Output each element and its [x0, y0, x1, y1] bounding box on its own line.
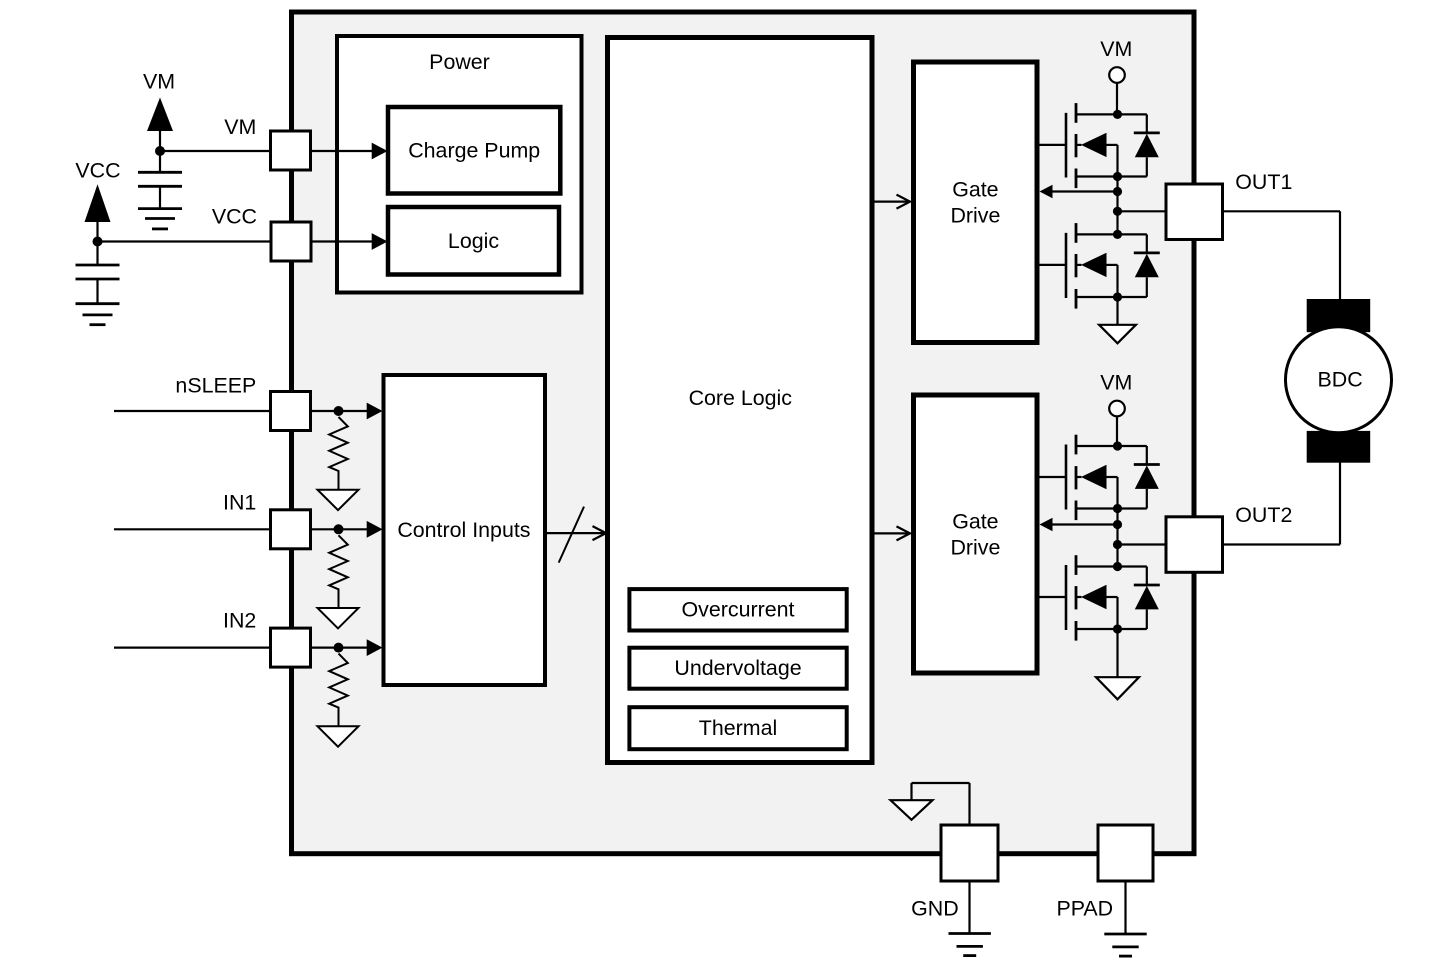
- pulldown resistor on IN2: [329, 654, 348, 727]
- node output (OUT1 half-bridge): [1113, 207, 1122, 216]
- control inputs block: [384, 375, 546, 685]
- svg-text:Power: Power: [429, 50, 490, 74]
- svg-text:IN2: IN2: [223, 609, 256, 633]
- ground (pulldown) for nSLEEP: [318, 490, 359, 510]
- power rail VM symbol: [143, 70, 175, 152]
- ground PPAD: [1104, 933, 1146, 936]
- node IN1 junction: [334, 524, 344, 534]
- svg-text:VCC: VCC: [212, 205, 257, 229]
- power rail VM symbol (OUT1 half-bridge): [1100, 37, 1132, 83]
- wire switch node vertical (OUT1 half-bridge): [1116, 177, 1118, 235]
- charge pump block U-CP: [388, 107, 560, 194]
- overcurrent block: [629, 589, 846, 630]
- node low-side drain (OUT1 half-bridge): [1113, 230, 1122, 239]
- pin OUT2: [1166, 517, 1223, 573]
- node VCC junction: [93, 237, 103, 247]
- wire core logic to gate drive 1: [872, 195, 910, 209]
- node VM junction: [155, 146, 165, 156]
- wire low-side source to ground (OUT2 half-bridge): [1116, 629, 1118, 677]
- wire VM pin to charge pump: [311, 143, 388, 160]
- wire IN1 input lead: [114, 528, 271, 530]
- gate drive block 1: [914, 62, 1038, 343]
- logic block U-LOGIC: [388, 207, 559, 275]
- node high-side source (OUT2 half-bridge): [1113, 504, 1122, 513]
- bus-width slash: [559, 507, 584, 563]
- thermal block: [629, 707, 846, 749]
- pin VCC: [271, 222, 311, 261]
- svg-text:VM: VM: [1100, 371, 1132, 395]
- wire PPAD pin to ground: [1124, 881, 1126, 934]
- diode body-diode low-side (OUT2 half-bridge): [1118, 567, 1160, 630]
- svg-text:PPAD: PPAD: [1056, 897, 1113, 921]
- diode body-diode low-side (OUT1 half-bridge): [1118, 234, 1160, 297]
- pin VM: [271, 131, 311, 170]
- pin OUT1: [1166, 184, 1223, 240]
- svg-text:Gate: Gate: [952, 178, 998, 202]
- wire feedback to gate drive (OUT2 half-bridge): [1040, 518, 1118, 532]
- ground symbol internal: [891, 800, 933, 820]
- node low-side drain (OUT2 half-bridge): [1113, 562, 1122, 571]
- pin IN1: [271, 510, 311, 549]
- bus wire control inputs to core logic: [545, 526, 606, 540]
- svg-text:Drive: Drive: [950, 203, 1000, 227]
- svg-text:nSLEEP: nSLEEP: [175, 373, 256, 397]
- node output (OUT2 half-bridge): [1113, 540, 1122, 549]
- diode body-diode high-side (OUT2 half-bridge): [1118, 446, 1160, 509]
- svg-text:Gate: Gate: [952, 510, 998, 534]
- capacitor on VM with ground: [138, 151, 182, 229]
- svg-text:Drive: Drive: [950, 535, 1000, 559]
- motor M1 BDC: [1286, 327, 1392, 433]
- wire GND internal tie: [912, 783, 970, 825]
- node high-side source (OUT1 half-bridge): [1113, 172, 1122, 181]
- ground (pulldown) for IN1: [318, 608, 359, 628]
- svg-text:OUT2: OUT2: [1235, 503, 1292, 527]
- wire VCC to pin: [98, 240, 272, 242]
- svg-text:OUT1: OUT1: [1235, 170, 1292, 194]
- wire VM to pin: [160, 150, 271, 152]
- transistor low-side NMOS (OUT2 half-bridge): [1037, 555, 1118, 640]
- svg-text:Core Logic: Core Logic: [689, 386, 793, 410]
- svg-text:VM: VM: [1100, 37, 1132, 61]
- svg-text:IN1: IN1: [223, 491, 256, 515]
- pin nSLEEP: [271, 392, 311, 431]
- ground symbol (OUT2 half-bridge): [1096, 677, 1139, 699]
- svg-text:Control Inputs: Control Inputs: [397, 518, 530, 542]
- ground (pulldown) for IN2: [318, 726, 359, 746]
- svg-text:Overcurrent: Overcurrent: [682, 598, 795, 622]
- svg-text:GND: GND: [911, 897, 959, 921]
- transistor high-side NMOS (OUT2 half-bridge): [1037, 435, 1118, 520]
- undervoltage block: [629, 648, 846, 689]
- power rail VM symbol (OUT2 half-bridge): [1100, 371, 1132, 417]
- node high-side drain (OUT2 half-bridge): [1113, 441, 1122, 450]
- wire nSLEEP input lead: [114, 410, 271, 412]
- node high-side drain (OUT1 half-bridge): [1113, 110, 1122, 119]
- node feedback tap (OUT1 half-bridge): [1113, 187, 1122, 196]
- node low-side source (OUT1 half-bridge): [1113, 292, 1122, 301]
- pulldown resistor on IN1: [329, 535, 348, 608]
- wire core logic to gate drive 2: [872, 526, 910, 540]
- node feedback tap (OUT2 half-bridge): [1113, 520, 1122, 529]
- pin PPAD: [1098, 825, 1153, 881]
- wire switch node vertical (OUT2 half-bridge): [1116, 509, 1118, 567]
- svg-text:Undervoltage: Undervoltage: [674, 656, 801, 680]
- diode body-diode high-side (OUT1 half-bridge): [1118, 114, 1160, 176]
- transistor high-side NMOS (OUT1 half-bridge): [1037, 103, 1118, 188]
- node nSLEEP junction: [334, 406, 344, 416]
- core logic block: [608, 38, 873, 763]
- wire feedback to gate drive (OUT1 half-bridge): [1040, 185, 1118, 199]
- wire low-side source to ground (OUT1 half-bridge): [1116, 297, 1118, 325]
- pin IN2: [271, 628, 311, 667]
- node IN2 junction: [334, 643, 344, 653]
- svg-text:Thermal: Thermal: [699, 716, 777, 740]
- svg-text:Logic: Logic: [448, 229, 499, 253]
- wire to output pin (OUT1 half-bridge): [1118, 210, 1167, 212]
- ground GND: [949, 932, 991, 935]
- node low-side source (OUT2 half-bridge): [1113, 624, 1122, 633]
- device outline (IC body): [292, 12, 1195, 854]
- capacitor on VCC with ground: [76, 242, 120, 325]
- wire motor to OUT2: [1223, 462, 1341, 545]
- ground symbol (OUT1 half-bridge): [1099, 325, 1136, 344]
- wire OUT1 to motor: [1223, 211, 1341, 300]
- wire VM to high-side drain (OUT2 half-bridge): [1116, 416, 1118, 446]
- wire IN1 pin to control inputs: [311, 521, 383, 538]
- power block box: [337, 36, 582, 293]
- svg-text:VCC: VCC: [75, 159, 120, 183]
- power rail VCC symbol: [75, 159, 120, 242]
- wire GND pin to ground: [968, 881, 970, 934]
- pin GND: [941, 825, 998, 881]
- motor terminal block top: [1307, 299, 1371, 332]
- wire VCC pin to logic: [311, 233, 388, 250]
- motor terminal block bottom: [1307, 431, 1371, 463]
- svg-text:Charge Pump: Charge Pump: [408, 138, 540, 162]
- svg-text:BDC: BDC: [1318, 367, 1363, 391]
- svg-text:VM: VM: [143, 70, 175, 94]
- pulldown resistor on nSLEEP: [329, 417, 348, 490]
- svg-text:VM: VM: [224, 115, 256, 139]
- wire VM to high-side drain (OUT1 half-bridge): [1116, 83, 1118, 115]
- wire IN2 input lead: [114, 646, 271, 648]
- wire nSLEEP pin to control inputs: [311, 403, 383, 420]
- transistor low-side NMOS (OUT1 half-bridge): [1037, 223, 1118, 309]
- wire to output pin (OUT2 half-bridge): [1118, 543, 1167, 545]
- wire IN2 pin to control inputs: [311, 639, 383, 656]
- gate drive block 2: [914, 395, 1038, 673]
